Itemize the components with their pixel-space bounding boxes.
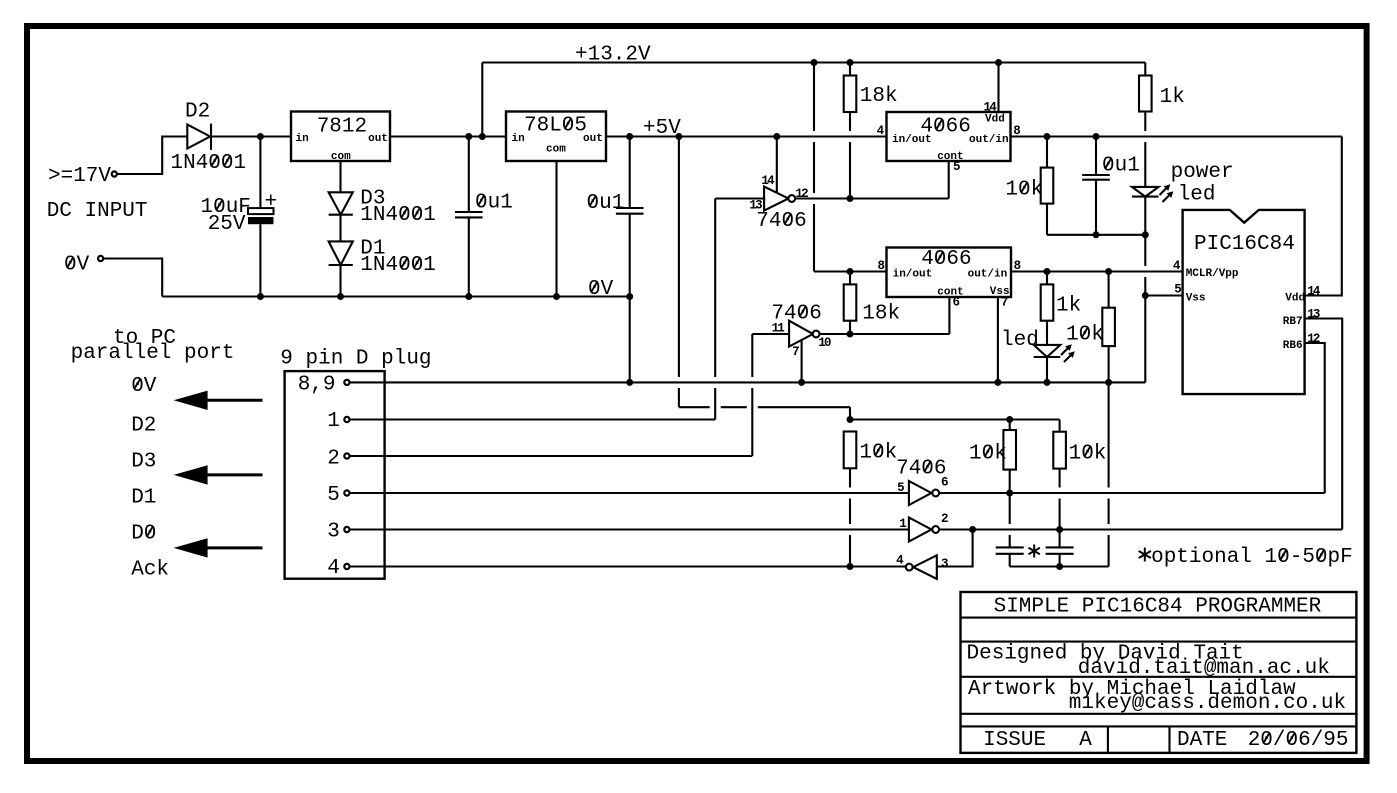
resistor 10k left: [844, 432, 857, 469]
node 0V input terminal: [98, 256, 103, 261]
title block outer: [961, 592, 1357, 753]
resistor 18k no.1: [849, 63, 851, 76]
svg-text:led: led: [1178, 184, 1216, 207]
wire 4066 no.1 cont pin5 stub: [948, 161, 950, 199]
svg-text:PIC16C84: PIC16C84: [1194, 233, 1295, 256]
wire +5V feed down (break at ground wire): [678, 137, 680, 378]
svg-text:optional 10-50pF: optional 10-50pF: [1151, 546, 1353, 569]
svg-text:out: out: [583, 133, 603, 145]
svg-text:in/out: in/out: [892, 134, 932, 146]
svg-text:D2: D2: [131, 415, 156, 438]
junction 0u1 no.1 top: [465, 133, 472, 140]
svg-text:RB6: RB6: [1283, 340, 1303, 352]
wire PIC Vdd pin14 to 4066 no.1 out: [1305, 137, 1342, 296]
pin 3 terminal: [344, 527, 349, 532]
wire 10k/0u1/led bottom tie: [1047, 234, 1145, 236]
pin 8,9 terminal: [344, 380, 349, 385]
svg-text:out: out: [368, 133, 388, 145]
junction 0u1 no.2 top: [626, 133, 633, 140]
svg-text:Vss: Vss: [1186, 293, 1206, 305]
junction 10k middle top: [1006, 416, 1013, 423]
junction 10k no.1 top: [1044, 133, 1051, 140]
resistor 10k right: [1059, 420, 1061, 432]
junction +5V feed takeoff: [675, 133, 682, 140]
junction D1 bottom: [337, 293, 344, 300]
title block row lines: [961, 617, 1357, 619]
wire 7406 gate4 output to RB7: [939, 528, 1342, 530]
label optional caps: [1139, 548, 1151, 562]
svg-text:10: 10: [818, 336, 831, 350]
wire 17V input to D2: [117, 137, 187, 175]
svg-text:Vdd: Vdd: [1285, 293, 1305, 305]
wire 0V rail: [162, 295, 630, 297]
wire led no.2 to ground: [1046, 357, 1048, 382]
junction led column at Vss wire: [1142, 292, 1149, 299]
svg-text:Vss: Vss: [990, 286, 1010, 298]
inverter 7406 gate5 (pins 4-3, faces left): [913, 555, 937, 579]
regulator 78L05: [506, 112, 606, 162]
junction 18k no.2 top: [847, 268, 854, 275]
svg-text:+: +: [265, 191, 278, 214]
junction ground at 629.7: [626, 379, 633, 386]
wire +13.2V rail: [482, 61, 1145, 63]
wire +5V feed horizontal (breaks at crossings): [679, 406, 710, 408]
resistor 18k no.2: [849, 272, 851, 285]
junction 10k right bottom: [1056, 526, 1063, 533]
wire 7406 gate1 input stub: [715, 197, 764, 199]
svg-text:9 pin D plug: 9 pin D plug: [280, 348, 431, 371]
svg-text:1N4001: 1N4001: [360, 204, 436, 227]
svg-text:18k: 18k: [860, 85, 898, 108]
svg-text:5: 5: [327, 484, 340, 507]
wire 7406 gate1 pin14 Vcc stub: [776, 137, 778, 193]
wire 4066 no.1 out to PIC Vdd corner: [1011, 135, 1342, 137]
svg-text:D2: D2: [185, 101, 210, 124]
junction led column at 234.8: [1142, 231, 1149, 238]
wire 4066 no.1 pin14 Vdd stub: [997, 63, 999, 113]
title block column lines: [1107, 726, 1109, 753]
connector 9 pin D plug body: [285, 371, 385, 579]
svg-text:led: led: [1001, 329, 1039, 352]
svg-text:cont: cont: [937, 287, 963, 299]
svg-text:Vdd: Vdd: [985, 114, 1005, 126]
IC PIC16C84: [1183, 210, 1305, 394]
junction 1k no.2 top: [1044, 268, 1051, 275]
wire D3 to D1: [339, 215, 341, 242]
capacitor 0u1 no.2: [629, 137, 631, 209]
svg-text:1N4001: 1N4001: [360, 254, 436, 277]
node >=17V input terminal: [112, 171, 117, 176]
pin 4 terminal: [344, 564, 349, 569]
junction rail at 18k no.1: [847, 59, 854, 66]
junction rail at 4066 no.1 Vdd: [995, 59, 1002, 66]
svg-text:+13.2V: +13.2V: [575, 44, 651, 67]
wire 7812 com stub: [339, 161, 341, 192]
svg-text:7406: 7406: [756, 210, 806, 233]
svg-text:cont: cont: [937, 151, 963, 163]
svg-text:out/in: out/in: [969, 134, 1009, 146]
wire PIC RB6 pin12 down: [1305, 343, 1325, 493]
junction 10k MCLR top: [1105, 268, 1112, 275]
wire plug pin5 to 7406 gate3: [350, 492, 909, 494]
inverter 7406 gate4 (pins 1-2): [909, 518, 932, 542]
wire 7812 out to 78L05 in: [390, 135, 506, 137]
svg-text:3: 3: [327, 521, 340, 544]
pin 1 terminal: [344, 417, 349, 422]
svg-text:25V: 25V: [208, 213, 246, 236]
wire power led to junctions below: [1144, 197, 1146, 266]
wire plug pin2 to 7406 gate2: [350, 455, 752, 457]
wire 4066 no.2 pin8 from 13.2V column: [814, 270, 887, 272]
svg-text:RB7: RB7: [1283, 316, 1303, 328]
svg-text:in: in: [296, 133, 309, 145]
wire 7406 gate1 output to 4066 no.1 cont: [795, 197, 949, 199]
svg-text:DC INPUT: DC INPUT: [47, 200, 148, 223]
junction 18k no.2 bottom: [847, 331, 854, 338]
junction 10k MCLR at ground: [1105, 379, 1112, 386]
junction 7406 pin7 at ground: [798, 379, 805, 386]
wire D2 to 7812 in: [211, 135, 291, 137]
wire 7406 gate3 output to RB6: [939, 492, 1325, 494]
svg-text:>=17V: >=17V: [48, 165, 111, 188]
wire 0V rail to ground distribution: [629, 297, 631, 383]
junction 10k left top: [847, 416, 854, 423]
wire 7406 gate2 output to 4066 no.2 cont: [820, 333, 950, 335]
wire rail to 1k no.1: [1144, 63, 1146, 76]
resistor 1k no.2: [1046, 272, 1048, 285]
junction 7406 gate1 Vcc: [773, 133, 780, 140]
junction led no.2 at ground: [1044, 379, 1051, 386]
wire +5V feed jog down: [849, 407, 851, 419]
svg-text:A: A: [1079, 729, 1092, 752]
label asterisk between caps: [1029, 545, 1040, 558]
svg-text:2: 2: [327, 448, 340, 471]
svg-text:7812: 7812: [317, 115, 367, 138]
svg-text:1: 1: [327, 410, 340, 433]
svg-text:8,9: 8,9: [298, 374, 336, 397]
junction 0u1 no.2 bottom / 0V rail end: [626, 293, 633, 300]
capacitor 10uF 25V: [259, 137, 261, 209]
svg-text:78L05: 78L05: [524, 115, 587, 138]
wire pullup feed to 10k resistors: [850, 418, 1060, 420]
svg-text:18k: 18k: [862, 303, 900, 326]
wire 7406 gate2 input stub: [752, 333, 789, 335]
resistor 10k no.1: [1046, 137, 1048, 168]
capacitor 0u1 no.1: [468, 137, 470, 213]
wire caps bottom tie: [1010, 565, 1109, 567]
wire plug pin4 to 7406 gate5 output: [350, 565, 905, 567]
pin 2 terminal: [344, 453, 349, 458]
wire 7406 gate5 input from gate4 output: [937, 530, 973, 567]
svg-text:power: power: [1171, 161, 1234, 184]
svg-text:D1: D1: [131, 487, 156, 510]
svg-text:1k: 1k: [1056, 295, 1081, 318]
IC 4066 no.1: [887, 112, 1011, 161]
svg-text:com: com: [546, 144, 566, 156]
wire 4066 no.2 out to PIC MCLR: [1011, 270, 1183, 272]
svg-text:4: 4: [327, 557, 340, 580]
resistor 10k middle: [1009, 420, 1011, 431]
inverter 7406 gate2 (pins 11-10): [789, 321, 813, 347]
svg-text:1k: 1k: [1160, 86, 1185, 109]
arrow to PC no.3: [205, 546, 263, 549]
junction 10k left bottom on Ack line: [847, 563, 854, 570]
svg-text:10k: 10k: [1069, 443, 1107, 466]
capacitor optional right: [1059, 530, 1061, 548]
junction 18k no.1 bottom: [847, 195, 854, 202]
svg-text:10k: 10k: [1066, 324, 1104, 347]
diode D2: [187, 125, 210, 149]
diode D3: [329, 192, 353, 214]
inverter 7406 gate3 (pins 5-6): [909, 481, 932, 505]
svg-text:david.tait@man.ac.uk: david.tait@man.ac.uk: [1078, 657, 1330, 680]
junction 10uF top: [257, 133, 264, 140]
wire +13.2V down to 4066 no.2 (breaks at +5V and 7406 out): [813, 63, 815, 132]
junction 4066 Vss at ground: [994, 379, 1001, 386]
diode D1: [329, 241, 353, 265]
wire 1k no.1 to power led (break at +5V switched line): [1144, 142, 1146, 187]
arrow to PC no.2: [205, 473, 263, 476]
svg-text:10k: 10k: [1005, 179, 1043, 202]
capacitor optional left: [1009, 493, 1011, 524]
svg-text:parallel port: parallel port: [71, 342, 235, 365]
wire PIC RB7 pin13 down: [1305, 319, 1343, 530]
junction 0u1 no.3 bottom: [1093, 231, 1100, 238]
junction cap right bottom: [1056, 563, 1063, 570]
svg-text:mikey@cass.demon.co.uk: mikey@cass.demon.co.uk: [1069, 692, 1346, 715]
junction 10uF bottom: [257, 293, 264, 300]
svg-text:D3: D3: [131, 451, 156, 474]
wire 78L05 com to 0V rail: [555, 161, 557, 297]
wire plug pin1 to 7406 gate1: [350, 418, 715, 420]
wire 7406 gate1 input down to plug pin1 (break at ground): [714, 199, 716, 378]
svg-text:Ack: Ack: [131, 558, 169, 581]
IC 4066 no.2: [887, 248, 1012, 298]
inverter 7406 gate1 (pins 13-12): [764, 187, 788, 211]
wire +5V line: [606, 135, 887, 137]
svg-text:ISSUE: ISSUE: [983, 729, 1046, 752]
wire 7406 gate2 input down to plug pin2 (break at ground): [751, 334, 753, 377]
svg-text:MCLR/Vpp: MCLR/Vpp: [1186, 268, 1239, 280]
junction +13.2V takeoff: [479, 133, 486, 140]
svg-text:10k: 10k: [859, 442, 897, 465]
svg-text:in/out: in/out: [893, 268, 933, 280]
resistor 10k MCLR: [1108, 272, 1110, 308]
svg-text:10k: 10k: [969, 443, 1007, 466]
svg-text:SIMPLE PIC16C84 PROGRAMMER: SIMPLE PIC16C84 PROGRAMMER: [994, 596, 1322, 619]
svg-text:D0: D0: [131, 522, 156, 545]
svg-text:7406: 7406: [896, 458, 946, 481]
wire PIC Vss stub: [1145, 294, 1182, 296]
junction rail at 814: [811, 59, 818, 66]
wire +13.2V riser: [481, 63, 483, 137]
arrow to PC no.1: [205, 399, 263, 402]
wire caps ground column (breaks at D1/D0 lines): [1108, 382, 1110, 487]
capacitor 0u1 no.3: [1095, 137, 1097, 176]
junction 0u1 no.3 top: [1093, 133, 1100, 140]
svg-text:1N4001: 1N4001: [171, 152, 247, 175]
wire 4066 no.2 cont pin6 stub: [948, 297, 950, 334]
LED power: [1132, 187, 1159, 197]
LED indicator: [1034, 345, 1061, 357]
pin 5 terminal: [344, 490, 349, 495]
resistor 1k no.1: [1139, 76, 1152, 112]
junction gate5 feedback: [969, 526, 976, 533]
svg-text:DATE: DATE: [1177, 729, 1227, 752]
regulator 7812: [291, 112, 390, 162]
wire 7406 gate2 pin7 ground stub: [801, 340, 803, 383]
svg-text:20/06/95: 20/06/95: [1248, 729, 1349, 752]
wire D1 to ground rail: [339, 265, 341, 297]
junction 78L05 com bottom: [553, 293, 560, 300]
junction 10k middle bottom: [1006, 490, 1013, 497]
wire ground distribution: [350, 381, 1145, 383]
junction 0u1 no.1 bottom: [465, 293, 472, 300]
wire 4066 no.2 Vss pin7 to ground: [997, 297, 999, 382]
wire plug pin3 to 7406 gate4: [350, 528, 909, 530]
svg-text:in: in: [512, 133, 525, 145]
wire 0V input to ground rail: [104, 259, 162, 297]
svg-text:out/in: out/in: [968, 268, 1008, 280]
